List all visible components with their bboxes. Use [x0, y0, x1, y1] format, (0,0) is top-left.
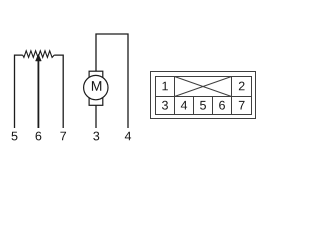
wire: motor bottom to terminal 3 [95, 105, 97, 128]
pin 4 [181, 101, 187, 110]
pin 7 [239, 101, 245, 110]
motor M (DC motor with brush block) [84, 71, 108, 105]
pin grid frame (shared single lines of pin boxes) [156, 77, 252, 115]
connector housing (pinout box) [151, 72, 256, 119]
pin 1 [162, 82, 167, 91]
wire: right lead from resistor down to terminal 7 [54, 55, 63, 128]
wire: wiper down to terminal 6 [37, 60, 39, 128]
terminal 3 [93, 132, 99, 141]
potentiometer resistor element (zigzag) [23, 51, 55, 58]
terminal 5 [12, 132, 18, 141]
pin 3 [162, 101, 168, 110]
pin 6 [219, 101, 225, 110]
wire: motor top loop over to terminal 4 [96, 34, 128, 128]
pin 5 [200, 101, 206, 110]
wiper arrow of potentiometer [36, 54, 42, 61]
terminal 4 [125, 132, 131, 141]
pin 2 [239, 82, 245, 91]
terminal 7 [60, 132, 66, 141]
bridge between pin 1 and pin 2 (crossed diagonals) [175, 77, 232, 97]
wire: left lead from terminal 5 up to resistor [15, 55, 23, 128]
terminal 6 [36, 132, 42, 141]
